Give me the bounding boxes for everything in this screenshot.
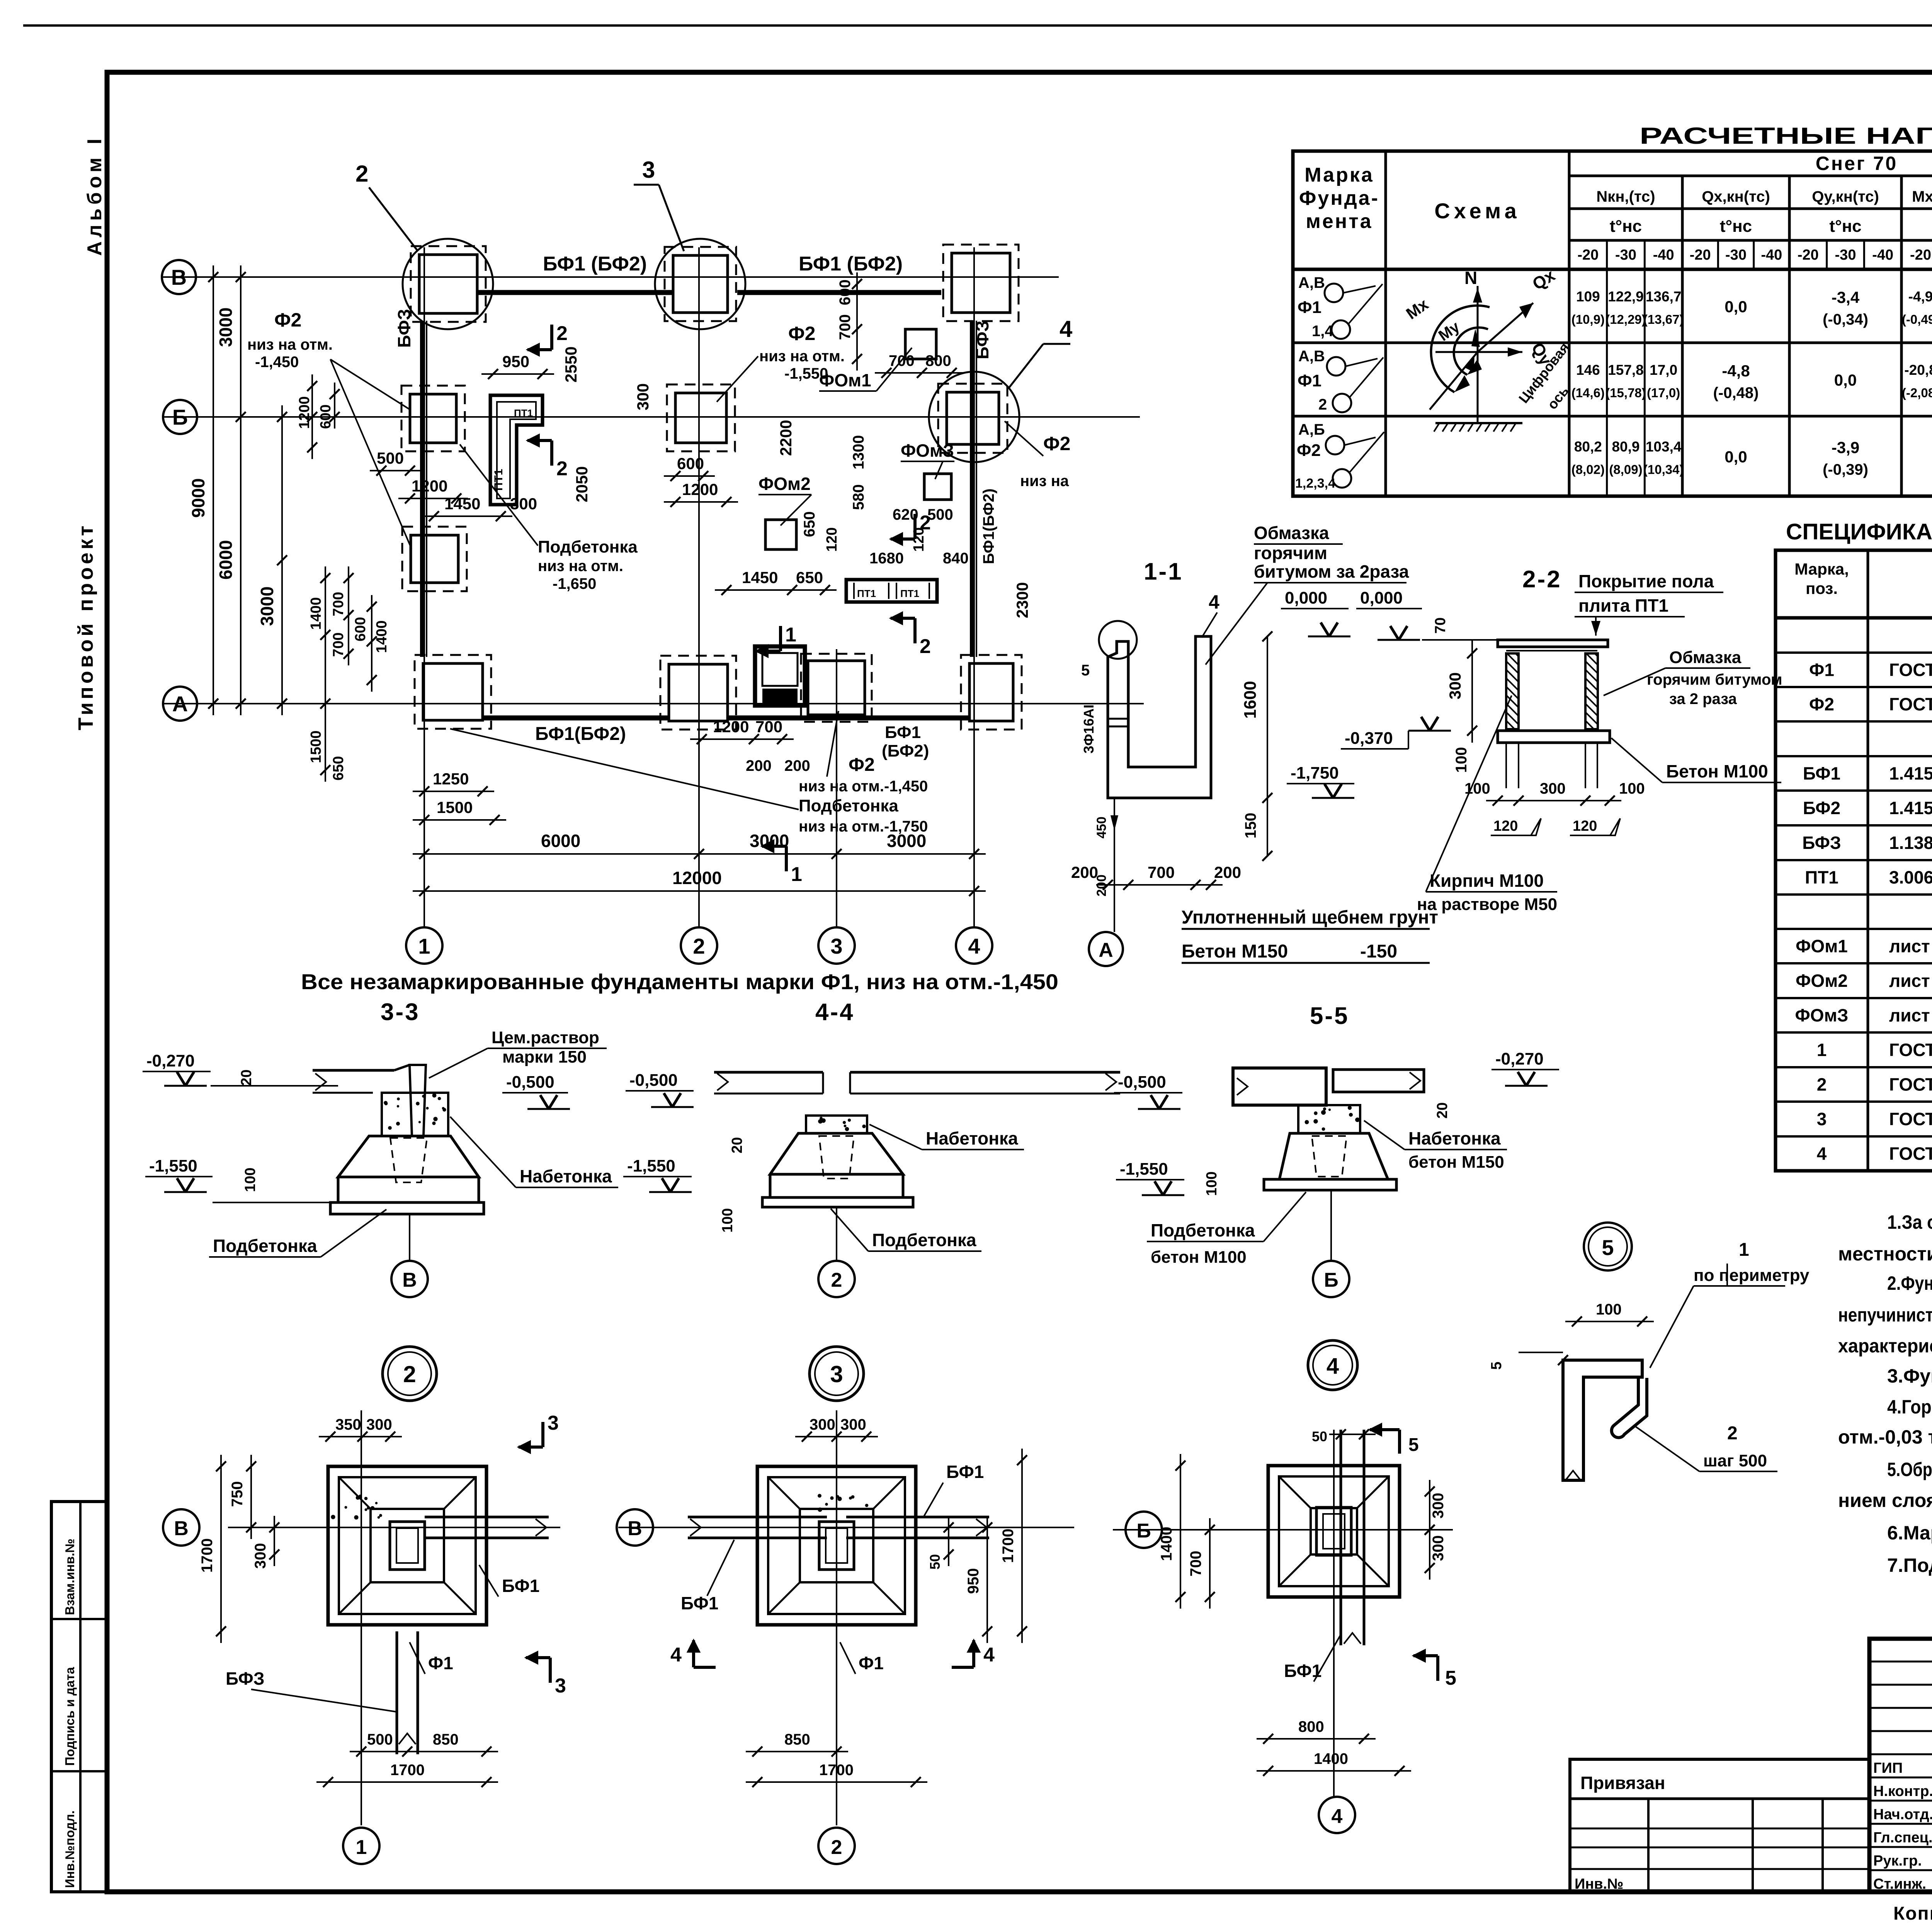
svg-text:109: 109 [1576, 289, 1600, 304]
svg-text:Обмазка: Обмазка [1669, 648, 1742, 667]
svg-text:Инв.№подл.: Инв.№подл. [63, 1810, 77, 1888]
detail 1 beam БФ3 down [396, 1631, 398, 1754]
svg-text:-3,4: -3,4 [1832, 288, 1860, 306]
detail 5 dim 100 [1565, 1321, 1654, 1322]
svg-text:1200: 1200 [412, 477, 447, 495]
svg-text:непучинистых, непросадочных гр: непучинистых, непросадочных грунтах и от… [1838, 1304, 1932, 1326]
svg-text:120: 120 [824, 527, 840, 552]
section cut 2-2 right lower [913, 618, 917, 643]
svg-text:нием слоями не более 200мм до: нием слоями не более 200мм до γск ≥16кН/… [1838, 1490, 1932, 1511]
svg-text:БФ1: БФ1 [681, 1593, 718, 1613]
svg-text:-1,650: -1,650 [553, 575, 596, 592]
svg-text:Взам.инв.№: Взам.инв.№ [63, 1539, 77, 1615]
axis line 3 [836, 649, 837, 927]
svg-text:Фунда-: Фунда- [1299, 187, 1379, 209]
detail title circle 4 above detail 4 [1308, 1340, 1357, 1390]
svg-text:2050: 2050 [573, 466, 591, 502]
svg-text:150: 150 [1242, 813, 1259, 838]
5-5 left slab [1233, 1068, 1326, 1105]
spec table verticals [1867, 550, 1869, 1171]
svg-text:горячим битумом: горячим битумом [1647, 671, 1782, 688]
svg-text:3000: 3000 [887, 831, 926, 851]
svg-text:ГОСТ 24022-80: ГОСТ 24022-80 [1889, 694, 1932, 714]
svg-text:-150: -150 [1360, 941, 1397, 962]
svg-text:120: 120 [1493, 818, 1518, 834]
svg-text:(10,9): (10,9) [1571, 312, 1605, 327]
svg-text:650: 650 [330, 756, 347, 781]
svg-text:t°нс: t°нс [1829, 217, 1861, 236]
svg-text:-0,270: -0,270 [146, 1051, 195, 1070]
svg-text:ПТ1: ПТ1 [900, 588, 919, 599]
svg-text:БФ1(БФ2): БФ1(БФ2) [535, 724, 626, 744]
title block frame [1869, 1639, 1932, 1892]
svg-text:12000: 12000 [672, 868, 722, 888]
section 2-2 top plate [1498, 640, 1608, 647]
dims under Ф2 left [370, 470, 422, 471]
svg-text:4-4: 4-4 [815, 999, 855, 1026]
svg-text:БФЗ: БФЗ [394, 309, 414, 348]
svg-text:(10,34): (10,34) [1643, 463, 1684, 477]
svg-text:2: 2 [403, 1361, 416, 1387]
svg-text:Ф2: Ф2 [1043, 433, 1070, 454]
loads table verticals [1384, 151, 1387, 496]
svg-text:ГИП: ГИП [1873, 1760, 1903, 1776]
svg-text:В: В [628, 1517, 642, 1540]
detail 4 section marks 5 [1398, 1430, 1401, 1454]
svg-text:3: 3 [830, 934, 842, 958]
section cut 2-2 right upper [913, 514, 917, 539]
svg-text:-30: -30 [1725, 247, 1747, 263]
detail circle 4 around Б/4 [929, 372, 1019, 462]
svg-text:БФ1: БФ1 [1803, 764, 1840, 784]
axis circle В under 3-3 [409, 1214, 410, 1260]
svg-text:горячим: горячим [1254, 543, 1327, 563]
svg-text:750: 750 [229, 1481, 246, 1507]
axis line 4 [973, 247, 975, 927]
svg-text:700: 700 [755, 718, 782, 736]
svg-text:580: 580 [850, 484, 867, 510]
svg-text:1450: 1450 [444, 495, 480, 513]
svg-text:20: 20 [238, 1070, 255, 1086]
loads scheme diagram [1477, 286, 1479, 423]
svg-text:6.Марка фундаментной балки в с: 6.Марка фундаментной балки в скобках дан… [1887, 1522, 1932, 1544]
5-5 pedestal dotted [1298, 1105, 1360, 1133]
loads table mark column row 3 [1293, 415, 1386, 418]
svg-text:по периметру: по периметру [1694, 1266, 1810, 1285]
svg-text:950: 950 [502, 352, 529, 371]
svg-text:Уплотненный щебнем грунт: Уплотненный щебнем грунт [1182, 907, 1438, 928]
svg-text:5-5: 5-5 [1310, 1003, 1349, 1029]
svg-text:Mх,кНм(тсм): Mх,кНм(тсм) [1912, 188, 1932, 205]
svg-text:-0,370: -0,370 [1345, 729, 1393, 748]
svg-text:100: 100 [242, 1168, 259, 1192]
svg-text:Ф2: Ф2 [274, 309, 301, 331]
4-4 pedestal dotted [806, 1116, 867, 1133]
3-3 dashed socket [390, 1138, 427, 1182]
svg-text:1700: 1700 [819, 1762, 854, 1779]
svg-text:850: 850 [784, 1731, 810, 1748]
plate ПТ1 strip near 3-4 [846, 580, 937, 602]
svg-text:136,7: 136,7 [1646, 289, 1682, 304]
detail circle 5 [1584, 1223, 1632, 1270]
svg-text:0,0: 0,0 [1725, 298, 1747, 316]
svg-text:В: В [174, 1517, 189, 1540]
svg-text:122,9: 122,9 [1608, 289, 1644, 304]
svg-text:Подбетонка: Подбетонка [538, 537, 638, 556]
svg-text:Ф1: Ф1 [1298, 371, 1321, 390]
svg-text:БФ1 (БФ2): БФ1 (БФ2) [799, 253, 903, 275]
svg-text:620: 620 [893, 506, 918, 523]
3-3 trapezoid [338, 1136, 479, 1177]
svg-text:Ф1: Ф1 [859, 1653, 884, 1673]
4-4 dashed socket [819, 1136, 854, 1179]
svg-text:1300: 1300 [850, 435, 867, 469]
svg-text:-1,550: -1,550 [149, 1156, 197, 1175]
svg-text:В: В [171, 265, 187, 289]
section cut 1-1 lower [785, 846, 788, 871]
svg-text:1500: 1500 [308, 730, 324, 763]
dimension 9000 total [213, 265, 214, 715]
svg-text:1250: 1250 [433, 770, 469, 788]
loads table mark column row 2 [1293, 342, 1386, 344]
svg-text:низ на: низ на [1020, 473, 1069, 490]
svg-text:5: 5 [1602, 1235, 1614, 1260]
svg-text:местности: местности [1838, 1243, 1932, 1265]
svg-text:1,4: 1,4 [1312, 323, 1333, 340]
left attribute boxes [51, 1502, 107, 1892]
svg-text:Qу,кн(тс): Qу,кн(тс) [1812, 188, 1879, 205]
svg-text:850: 850 [433, 1731, 459, 1748]
svg-text:ПТ1: ПТ1 [492, 469, 505, 491]
equipment foundation ФОм1 square [905, 329, 936, 359]
detail title circle 2 above detail 1 [383, 1347, 437, 1401]
svg-text:2: 2 [693, 934, 705, 958]
svg-text:Ст.инж.: Ст.инж. [1873, 1876, 1926, 1892]
svg-text:Бетон М100: Бетон М100 [1666, 761, 1768, 781]
svg-text:2200: 2200 [777, 420, 795, 456]
svg-text:80,2: 80,2 [1574, 439, 1602, 455]
spec table header [1776, 616, 1932, 620]
axis circle В detail 2 [617, 1509, 653, 1546]
svg-text:-20: -20 [1690, 247, 1711, 263]
svg-text:0,0: 0,0 [1725, 448, 1747, 466]
svg-text:1700: 1700 [390, 1762, 425, 1779]
svg-text:300: 300 [634, 383, 652, 410]
svg-text:-1,450: -1,450 [255, 354, 299, 371]
axis circle А [163, 687, 197, 721]
beam БФ1(БФ2) along В between 1-2 [477, 290, 673, 295]
svg-text:-0,270: -0,270 [1495, 1049, 1544, 1068]
svg-text:650: 650 [796, 568, 823, 587]
svg-text:840: 840 [943, 550, 969, 567]
dims 100 300 100 under 2-2 [1486, 800, 1621, 801]
axis line Б [162, 416, 1140, 418]
svg-text:2-2: 2-2 [1522, 566, 1562, 593]
svg-text:ФОмЗ: ФОмЗ [901, 440, 954, 461]
svg-text:200: 200 [1214, 863, 1241, 881]
svg-text:характеристиками: Сⁿ=0,002мПа(: характеристиками: Сⁿ=0,002мПа(0,02 кг/см… [1838, 1335, 1932, 1357]
equipment foundation ФОм2 square [765, 520, 796, 549]
axis circle 1 detail 1 [343, 1828, 379, 1864]
svg-text:БФЗ: БФЗ [226, 1668, 265, 1689]
svg-text:лист 6: лист 6 [1889, 1005, 1932, 1026]
svg-text:200: 200 [784, 757, 810, 774]
svg-text:ГОСТ 5781-82: ГОСТ 5781-82 [1889, 1109, 1932, 1129]
svg-text:ПТ1: ПТ1 [514, 407, 533, 419]
svg-text:800: 800 [925, 352, 951, 369]
svg-text:(8,02): (8,02) [1571, 463, 1605, 477]
detail circle 2 around В/1 [403, 239, 493, 329]
svg-text:-0,500: -0,500 [506, 1073, 554, 1092]
svg-text:2: 2 [831, 1269, 842, 1291]
svg-text:-20: -20 [1577, 247, 1599, 263]
axis circle 2 under 4-4 [836, 1207, 837, 1260]
svg-text:0,000: 0,000 [1285, 588, 1327, 607]
svg-text:Н.контр.: Н.контр. [1873, 1783, 1932, 1799]
svg-text:(14,6): (14,6) [1571, 386, 1605, 400]
svg-text:20: 20 [729, 1137, 745, 1153]
svg-text:бетон М150: бетон М150 [1408, 1153, 1504, 1172]
detail 1 section marks 3 [541, 1422, 544, 1447]
svg-text:1200: 1200 [682, 480, 718, 498]
axis circle Б detail 4 [1126, 1512, 1162, 1548]
svg-text:100: 100 [1453, 747, 1470, 773]
svg-text:Нач.отд.: Нач.отд. [1873, 1806, 1932, 1823]
svg-text:ФОм2: ФОм2 [759, 474, 811, 494]
foundation Ф2 right of 3 on А [801, 654, 872, 722]
svg-text:-20: -20 [1910, 247, 1931, 263]
svg-text:ГОСТ 5781-82: ГОСТ 5781-82 [1889, 1075, 1932, 1095]
svg-text:100: 100 [1619, 780, 1645, 797]
svg-text:ПТ1: ПТ1 [1805, 867, 1838, 888]
svg-text:3: 3 [642, 157, 655, 183]
foundation Ф1 at А/4 [961, 655, 1022, 730]
5-5 right slab [1333, 1070, 1424, 1092]
svg-text:БФЗ: БФЗ [972, 320, 992, 359]
svg-text:А: А [172, 692, 188, 716]
svg-text:100: 100 [719, 1208, 736, 1233]
svg-text:950: 950 [965, 1568, 982, 1594]
svg-text:(-0,34): (-0,34) [1823, 311, 1868, 328]
svg-text:2.Фундаменты запроектированы д: 2.Фундаменты запроектированы для строите… [1887, 1272, 1932, 1294]
svg-text:(8,09): (8,09) [1609, 463, 1642, 477]
svg-text:Ф2: Ф2 [1297, 441, 1321, 460]
dims 200 700 200 under 1-1 [1096, 884, 1223, 886]
svg-text:3: 3 [548, 1412, 559, 1434]
4-4 floor beams [714, 1071, 823, 1074]
section 1-1 foundation walls [1108, 636, 1211, 798]
leader and label 4 [1009, 344, 1043, 388]
svg-text:плита ПТ1: плита ПТ1 [1578, 595, 1668, 616]
svg-text:2300: 2300 [1013, 582, 1031, 618]
svg-text:СПЕЦИФИКАЦИЯ ЭЛЕМЕНТОВ К СХ: СПЕЦИФИКАЦИЯ ЭЛЕМЕНТОВ К СХЕМЕ РАСПОЛОЖЕ… [1786, 519, 1932, 544]
svg-text:0,000: 0,000 [1360, 588, 1403, 607]
svg-text:Подбетонка: Подбетонка [872, 1230, 976, 1250]
axis circle А on 1-1 [1089, 932, 1123, 966]
svg-text:157,8: 157,8 [1608, 362, 1644, 378]
svg-text:Ф1: Ф1 [428, 1653, 453, 1673]
privyazan table [1570, 1759, 1869, 1892]
svg-text:2: 2 [1318, 396, 1327, 413]
axis circle 2 detail 2 [818, 1828, 855, 1864]
svg-text:-30: -30 [1615, 247, 1636, 263]
3-3 base plate [330, 1202, 484, 1214]
svg-text:Ф2: Ф2 [849, 755, 875, 775]
svg-text:-3,9: -3,9 [1832, 439, 1859, 457]
detail title circle 3 above detail 2 [810, 1347, 864, 1401]
svg-text:-30: -30 [1835, 247, 1856, 263]
svg-text:4: 4 [670, 1644, 682, 1666]
svg-text:БФ1 (БФ2): БФ1 (БФ2) [543, 253, 647, 275]
svg-text:Б: Б [1324, 1269, 1338, 1291]
svg-text:3-3: 3-3 [381, 999, 420, 1026]
svg-text:1450: 1450 [742, 568, 778, 587]
svg-text:2: 2 [1817, 1075, 1827, 1095]
svg-text:Qх,кн(тс): Qх,кн(тс) [1702, 188, 1770, 205]
svg-text:300: 300 [810, 1416, 835, 1433]
svg-text:БФ1: БФ1 [502, 1576, 539, 1596]
bottom dimension chain 6000/3000/3000 [413, 853, 986, 855]
dims near ПТ1 [481, 373, 554, 375]
detail 2 concrete patch [851, 1495, 855, 1499]
svg-text:1500: 1500 [437, 798, 473, 816]
svg-text:БФ1: БФ1 [946, 1462, 984, 1482]
svg-text:4: 4 [1327, 1354, 1339, 1379]
svg-text:шаг 500: шаг 500 [1703, 1451, 1767, 1470]
svg-text:1400: 1400 [1314, 1750, 1348, 1767]
svg-text:2: 2 [355, 161, 368, 187]
svg-text:300: 300 [510, 495, 537, 513]
section cut 2-2 lower [550, 440, 553, 466]
detail plan at axis 2 [757, 1466, 916, 1625]
svg-text:-20,8: -20,8 [1904, 362, 1932, 378]
svg-text:ГОСТ 24022-80: ГОСТ 24022-80 [1889, 660, 1932, 680]
detail 4 axes [1113, 1529, 1453, 1531]
detail 1 dims [319, 1436, 402, 1437]
3-3 column stub [410, 1065, 426, 1136]
svg-text:N: N [1464, 268, 1477, 288]
svg-text:1200: 1200 [296, 396, 313, 429]
section cut 2-2 upper [550, 325, 553, 350]
svg-text:4: 4 [1332, 1805, 1343, 1828]
detail 2 dims [795, 1436, 878, 1437]
svg-text:6000: 6000 [216, 540, 236, 580]
dims 1250/1500 bottom left [413, 791, 494, 792]
loads table data [1606, 269, 1608, 496]
svg-text:1700: 1700 [1000, 1529, 1017, 1563]
svg-text:-1,750: -1,750 [1291, 764, 1339, 782]
svg-text:Ф1: Ф1 [1809, 660, 1834, 680]
foundation Ф1 at А/1 [415, 655, 491, 729]
dimension 3000/3000 middle [281, 405, 283, 715]
svg-text:3: 3 [830, 1361, 843, 1387]
svg-text:Ф2: Ф2 [1809, 694, 1834, 714]
axis circle Б under 5-5 [1330, 1190, 1332, 1260]
svg-text:лист 6: лист 6 [1889, 936, 1932, 956]
svg-text:1400: 1400 [1158, 1527, 1175, 1561]
section 2-2 leg lines [1505, 743, 1507, 788]
svg-text:1.138-10, вып.1: 1.138-10, вып.1 [1889, 833, 1932, 853]
svg-text:Набетонка: Набетонка [926, 1128, 1018, 1148]
loads table horizontals [1569, 175, 1932, 177]
svg-text:1600: 1600 [1241, 681, 1260, 719]
detail plan at axis 1 [328, 1466, 486, 1625]
svg-text:450: 450 [1094, 816, 1109, 838]
svg-text:5: 5 [1408, 1435, 1419, 1455]
svg-text:4: 4 [1209, 591, 1219, 613]
svg-text:1: 1 [418, 934, 430, 958]
svg-text:лист 6: лист 6 [1889, 971, 1932, 991]
svg-text:17,0: 17,0 [1650, 362, 1677, 378]
svg-text:650: 650 [801, 511, 818, 537]
svg-text:146: 146 [1576, 362, 1600, 378]
svg-text:103,4: 103,4 [1646, 439, 1682, 455]
svg-text:300: 300 [1540, 780, 1566, 797]
svg-text:1-1: 1-1 [1144, 558, 1183, 585]
svg-text:120: 120 [911, 527, 927, 552]
svg-text:300: 300 [252, 1543, 269, 1569]
dims 1450/650 middle [715, 589, 837, 591]
svg-text:(БФ2): (БФ2) [882, 742, 929, 760]
svg-text:Марка,: Марка, [1794, 560, 1849, 578]
label 4 leader on 1-1 [1202, 612, 1217, 638]
svg-text:5: 5 [1445, 1667, 1456, 1689]
svg-text:Б: Б [172, 405, 188, 429]
svg-text:на растворе М50: на растворе М50 [1417, 895, 1557, 914]
svg-text:3000: 3000 [216, 308, 236, 347]
dims under Б/2 [664, 475, 715, 477]
svg-text:-1,550: -1,550 [627, 1156, 675, 1175]
axis circle 1 [406, 927, 442, 964]
svg-text:300: 300 [840, 1416, 866, 1433]
svg-text:7.Подбетонку под фундаменты вы: 7.Подбетонку под фундаменты выполнять на… [1887, 1554, 1932, 1576]
svg-text:6000: 6000 [541, 831, 580, 851]
svg-text:(-2,08): (-2,08) [1902, 386, 1932, 400]
svg-text:3Ф16АІ: 3Ф16АІ [1081, 704, 1097, 753]
svg-text:300: 300 [1430, 1493, 1447, 1519]
svg-text:БФ2: БФ2 [1803, 798, 1840, 818]
svg-text:3000: 3000 [750, 831, 789, 851]
5-5 base plate [1264, 1179, 1396, 1190]
svg-text:Альбом I: Альбом I [83, 135, 106, 256]
svg-text:(-0,49): (-0,49) [1902, 312, 1932, 327]
axis circle 4 [956, 927, 992, 964]
detail circle on 1-1 corner [1099, 621, 1137, 659]
svg-text:120: 120 [1573, 818, 1597, 834]
svg-text:-1,550: -1,550 [1120, 1160, 1168, 1179]
svg-text:2550: 2550 [562, 347, 580, 383]
svg-text:А: А [1099, 939, 1113, 961]
svg-text:9000: 9000 [188, 478, 208, 518]
3-3 pedestal dotted [382, 1093, 448, 1136]
page outer trim border top line [23, 24, 1932, 27]
svg-text:5: 5 [1488, 1362, 1505, 1370]
detail plan at axis 4 [1268, 1466, 1400, 1597]
equipment foundation square near ФОм3 [924, 474, 951, 500]
svg-text:отм.-0,03 толщиной 30 мм.: отм.-0,03 толщиной 30 мм. [1838, 1426, 1932, 1448]
spec table row lines [1776, 651, 1932, 654]
section cut 1-1 upper [779, 626, 782, 651]
svg-text:ПТ1: ПТ1 [857, 588, 876, 599]
svg-text:-4,8: -4,8 [1722, 362, 1750, 380]
svg-text:Типовой проект: Типовой проект [74, 523, 97, 731]
svg-text:поз.: поз. [1806, 579, 1838, 597]
svg-text:300: 300 [1430, 1535, 1447, 1561]
svg-text:-0,500: -0,500 [1118, 1073, 1166, 1092]
foundation Ф2 middle row axis1 [402, 527, 467, 591]
svg-text:1.За отметку 0,000 принят уров: 1.За отметку 0,000 принят уровень чистог… [1887, 1211, 1932, 1233]
4-4 trapezoid [770, 1133, 903, 1174]
